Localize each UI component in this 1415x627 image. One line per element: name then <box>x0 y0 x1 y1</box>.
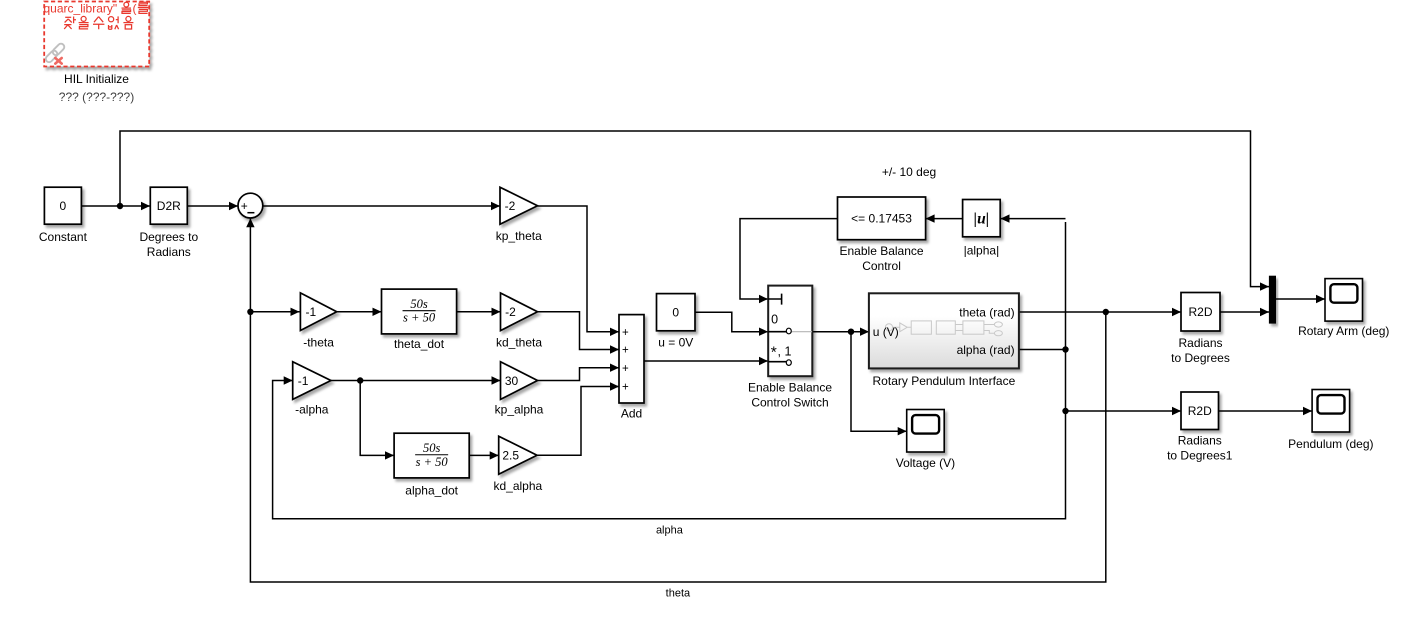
junction theta feedback branch <box>247 309 253 315</box>
svg-text:30: 30 <box>505 374 519 388</box>
transfer function theta_dot 50s/(s+50) <box>382 289 457 351</box>
svg-text:-theta: -theta <box>303 336 334 350</box>
scope Voltage (V) <box>896 410 955 471</box>
wire kd_alpha to Add in4 <box>537 382 619 455</box>
junction theta feedback junction <box>1103 309 1109 315</box>
svg-text:u = 0V: u = 0V <box>658 336 693 350</box>
svg-text:Enable Balance: Enable Balance <box>748 381 832 395</box>
broken chain-link icon <box>44 42 65 63</box>
svg-text:Rotary Arm (deg): Rotary Arm (deg) <box>1298 324 1389 338</box>
svg-text:+: + <box>622 327 629 339</box>
svg-text:|u|: |u| <box>974 211 989 228</box>
svg-text:-1: -1 <box>305 305 316 319</box>
svg-text:*: * <box>771 345 777 362</box>
svg-text:to Degrees1: to Degrees1 <box>1167 448 1233 462</box>
svg-text:D2R: D2R <box>157 199 181 213</box>
gain -alpha value -1 <box>293 362 331 417</box>
wire Constant to D2R <box>81 202 150 210</box>
svg-text:kd_theta: kd_theta <box>496 336 542 350</box>
gain kp_alpha value 30 <box>495 362 544 417</box>
svg-text:Degrees to: Degrees to <box>139 230 198 244</box>
wire Switch branch to Voltage scope <box>851 332 907 436</box>
gain kd_theta value -2 <box>496 293 542 350</box>
transfer function alpha_dot 50s/(s+50) <box>394 433 469 497</box>
wire Mux to Rotary Arm scope <box>1276 295 1325 303</box>
wire R2D1 to Pendulum scope <box>1219 407 1313 415</box>
red error text line 1: quarc_library"을(를 <box>44 1 149 15</box>
wire D2R to Sum <box>188 202 239 210</box>
svg-text:Control Switch: Control Switch <box>751 396 828 410</box>
gain kd_alpha value 2.5 <box>493 436 542 493</box>
svg-text:+/- 10 deg: +/- 10 deg <box>882 165 936 179</box>
wire theta out to R2D <box>1019 308 1181 316</box>
wire alpha branch to R2D1 <box>1066 407 1182 415</box>
wire -theta to theta_dot <box>337 308 382 316</box>
block Radians to Degrees1 (R2D) <box>1167 392 1233 462</box>
svg-text:-1: -1 <box>298 374 309 388</box>
red error text line 2: 찾을 수 없음 <box>64 16 133 29</box>
svg-text:Radians: Radians <box>1178 434 1222 448</box>
svg-text:-2: -2 <box>505 305 516 319</box>
scope Pendulum (deg) <box>1288 390 1373 452</box>
wire -alpha to kp_alpha <box>331 376 501 384</box>
signal label theta <box>666 588 691 600</box>
svg-text:Add: Add <box>621 407 642 421</box>
svg-text:50s: 50s <box>410 297 428 311</box>
svg-text:kp_alpha: kp_alpha <box>495 403 544 417</box>
svg-text:+: + <box>622 382 629 394</box>
wire kp_theta to Add in1 <box>538 206 620 336</box>
wire kp_alpha to Add in3 <box>538 364 620 381</box>
junction alpha R2D1 branch <box>1062 408 1068 414</box>
wire theta branch to -theta <box>250 308 299 316</box>
svg-text:Voltage (V): Voltage (V) <box>896 456 955 470</box>
wire Switch to Interface <box>812 328 869 336</box>
svg-text:+: + <box>241 199 248 213</box>
svg-text:s + 50: s + 50 <box>403 311 436 325</box>
gain kp_theta value -2 <box>496 187 542 243</box>
junction alpha port junction <box>1062 346 1068 352</box>
svg-text:kp_theta: kp_theta <box>496 229 542 243</box>
block abs |u| (|alpha|) <box>963 200 1001 258</box>
svg-text:quarc_library": quarc_library" <box>44 1 118 15</box>
svg-text:+: + <box>622 345 629 357</box>
junction -alpha output branch <box>357 377 363 383</box>
label ??? (???-???) <box>59 90 134 104</box>
scope Rotary Arm (deg) <box>1298 279 1389 338</box>
wire reference branch to Mux <box>120 131 1269 291</box>
svg-text:Pendulum (deg): Pendulum (deg) <box>1288 437 1373 451</box>
wire theta feedback <box>246 218 1106 582</box>
svg-text:Control: Control <box>862 259 901 273</box>
junction Constant branch <box>117 203 123 209</box>
svg-text:alpha_dot: alpha_dot <box>405 484 458 498</box>
svg-text:R2D: R2D <box>1188 404 1212 418</box>
gain -theta value -1 <box>300 293 336 350</box>
svg-text:u (V): u (V) <box>873 325 899 339</box>
svg-text:Enable Balance: Enable Balance <box>840 244 924 258</box>
wire theta_dot to kd_theta <box>457 308 501 316</box>
svg-text:HIL Initialize: HIL Initialize <box>64 72 129 86</box>
wire kd_theta to Add in2 <box>538 312 620 354</box>
svg-text:s + 50: s + 50 <box>416 455 449 469</box>
svg-text:-2: -2 <box>505 199 516 213</box>
svg-text:50s: 50s <box>423 441 441 455</box>
mux <box>1269 276 1276 324</box>
svg-text:0: 0 <box>60 199 67 213</box>
svg-text:Rotary Pendulum Interface: Rotary Pendulum Interface <box>873 374 1016 388</box>
block HIL Initialize (broken link) <box>44 2 149 67</box>
svg-text:??? (???-???): ??? (???-???) <box>59 90 134 104</box>
block Degrees to Radians (D2R) <box>139 187 198 259</box>
wire abs to EBC <box>926 214 963 222</box>
label HIL Initialize <box>64 72 129 86</box>
annotation +/- 10 deg <box>882 165 936 179</box>
junction Switch output branch <box>848 329 854 335</box>
wire u0V to Switch in2 <box>695 312 768 336</box>
svg-text:R2D: R2D <box>1188 305 1212 319</box>
sum junction <box>238 193 263 218</box>
block Enable Balance Control (&lt;= 0.17453) <box>838 197 926 273</box>
svg-text:Radians: Radians <box>147 245 191 259</box>
svg-text:|alpha|: |alpha| <box>964 244 1000 258</box>
svg-text:0: 0 <box>672 305 679 319</box>
wire Sum to kp_theta <box>263 202 500 210</box>
wire alpha vertical to abs <box>1001 214 1066 222</box>
block Add (sum of 4) <box>619 315 644 421</box>
wire alpha port to vertical <box>1019 349 1066 351</box>
svg-text:-alpha: -alpha <box>295 403 329 417</box>
wire alpha_dot to kd_alpha <box>469 451 499 459</box>
block Enable Balance Control Switch <box>748 286 832 410</box>
svg-text:theta: theta <box>666 588 691 600</box>
svg-text:alpha: alpha <box>656 525 684 537</box>
svg-text:2.5: 2.5 <box>502 449 519 463</box>
wire R2D to Mux in2 <box>1220 308 1269 316</box>
svg-text:alpha (rad): alpha (rad) <box>957 343 1015 357</box>
wire alpha to alpha_dot <box>360 381 394 460</box>
svg-text:Radians: Radians <box>1178 336 1222 350</box>
svg-text:kd_alpha: kd_alpha <box>493 479 542 493</box>
svg-text:Constant: Constant <box>39 230 88 244</box>
svg-text:theta_dot: theta_dot <box>394 337 445 351</box>
svg-text:, 1: , 1 <box>778 345 792 359</box>
wire Add to Switch in3 <box>644 357 768 365</box>
svg-text:theta (rad): theta (rad) <box>959 305 1014 319</box>
svg-text:0: 0 <box>771 313 778 327</box>
svg-text:<= 0.17453: <= 0.17453 <box>851 212 912 226</box>
subsystem Rotary Pendulum Interface <box>869 293 1019 388</box>
svg-text:+: + <box>622 363 629 375</box>
constant u = 0V value 0 <box>657 294 696 350</box>
svg-text:to Degrees: to Degrees <box>1171 351 1230 365</box>
svg-text:(: ( <box>133 1 137 15</box>
wire EBC to Switch in1 <box>740 219 838 304</box>
block Radians to Degrees (R2D) <box>1171 293 1230 365</box>
wire alpha feedback <box>273 222 1066 519</box>
constant Constant value 0 <box>39 187 88 244</box>
signal label alpha <box>656 525 684 537</box>
